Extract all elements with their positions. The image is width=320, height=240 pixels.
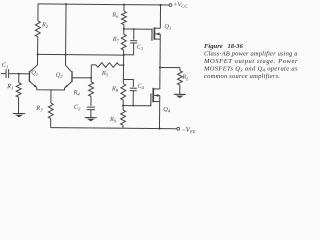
svg-text:C4: C4 — [137, 84, 144, 90]
svg-text:common source amplifiers.: common source amplifiers. — [204, 73, 280, 80]
svg-text:MOSFETs Q3 and Q4 operate as: MOSFETs Q3 and Q4 operate as — [203, 65, 298, 72]
svg-text:C3: C3 — [136, 45, 143, 51]
svg-text:Class-AB power amplifier using: Class-AB power amplifier using a — [204, 50, 298, 57]
svg-text:18-36: 18-36 — [228, 43, 244, 50]
svg-text:Figure: Figure — [204, 43, 223, 50]
svg-text:MOSFET output stage. Power: MOSFET output stage. Power — [203, 58, 298, 65]
